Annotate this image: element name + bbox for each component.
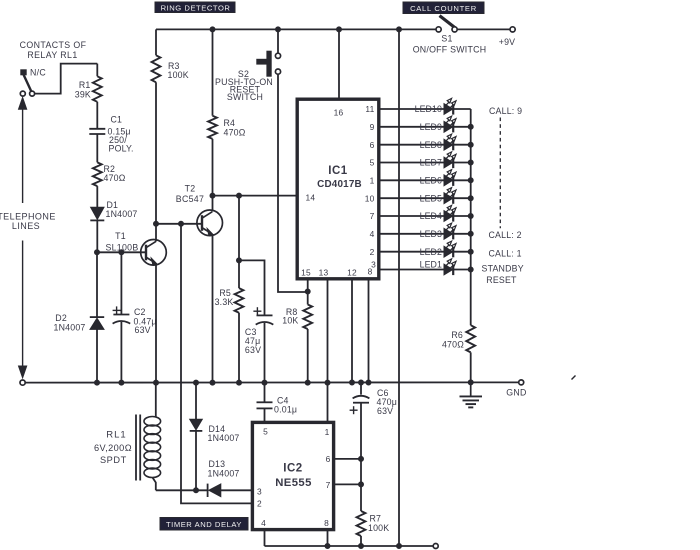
wire T2 collector xyxy=(212,196,214,212)
switch S1 terminals xyxy=(436,27,457,32)
IC2 pin 3 label xyxy=(257,487,262,497)
node ground bus IC1-13 IC2-1 xyxy=(325,380,330,385)
capacitor C3 xyxy=(256,315,274,382)
IC2 pin 8 label xyxy=(324,518,329,528)
wire IC2 pin7 xyxy=(334,483,361,485)
svg-text:RELAY RL1: RELAY RL1 xyxy=(27,50,77,60)
capacitor C6 xyxy=(353,383,370,512)
svg-text:63V: 63V xyxy=(377,406,393,416)
label D2 xyxy=(54,313,86,332)
svg-text:R6: R6 xyxy=(451,330,463,340)
svg-text:3: 3 xyxy=(371,260,376,270)
svg-text:SWITCH: SWITCH xyxy=(227,92,263,102)
svg-text:11: 11 xyxy=(365,104,374,114)
IC1 pin 15 label xyxy=(301,267,311,277)
node LED8 cathode junction xyxy=(468,142,473,147)
wire S1 to +9V terminal xyxy=(457,28,510,30)
svg-text:6V,200Ω: 6V,200Ω xyxy=(94,443,132,453)
wire IC1 pin 3 to LED1 xyxy=(379,269,444,271)
call counter section label xyxy=(403,2,484,14)
wire IC1 pin8 to ground bus xyxy=(368,279,370,383)
node ground bus R5 xyxy=(237,380,242,385)
svg-text:CALL: 9: CALL: 9 xyxy=(489,106,522,116)
label RESET xyxy=(486,275,517,285)
node reset junction xyxy=(305,289,310,294)
svg-text:100K: 100K xyxy=(168,70,189,80)
wire bottom +9V rail xyxy=(265,545,434,547)
svg-text:SPDT: SPDT xyxy=(100,455,127,465)
label D14 xyxy=(208,424,240,443)
label LED10 xyxy=(415,104,442,114)
wire IC1 pin 2 to LED2 xyxy=(379,251,444,253)
node ground bus T2 emitter xyxy=(210,380,215,385)
svg-text:4: 4 xyxy=(261,518,266,528)
wire IC2 pin4 to rail xyxy=(264,530,266,546)
svg-text:SL100B: SL100B xyxy=(105,243,138,253)
wire IC2 pin8 to rail xyxy=(327,530,329,546)
node LED5 cathode junction xyxy=(468,196,473,201)
ground symbol xyxy=(460,382,483,407)
node C2 branch xyxy=(119,250,124,255)
svg-text:6: 6 xyxy=(326,454,331,464)
label LED2 xyxy=(420,247,442,257)
svg-text:2: 2 xyxy=(370,247,375,257)
telephone line arrow up xyxy=(19,97,27,203)
resistor R4 xyxy=(208,29,217,195)
diode D14 xyxy=(190,383,203,491)
wire IC1 pin13 to IC2 pin1 xyxy=(327,279,329,422)
svg-text:LED9: LED9 xyxy=(420,122,442,132)
svg-text:LED7: LED7 xyxy=(420,158,442,168)
svg-text:12: 12 xyxy=(347,267,357,277)
relay RL1 coil xyxy=(144,383,161,491)
svg-text:2: 2 xyxy=(257,498,262,508)
terminal contact upper xyxy=(20,91,25,96)
svg-text:LED4: LED4 xyxy=(420,211,442,221)
svg-text:LED6: LED6 xyxy=(420,175,442,185)
label CALL 1 xyxy=(489,249,522,259)
capacitor C1 xyxy=(89,129,105,163)
wire top rail to S2 xyxy=(277,29,279,53)
label CALL 2 xyxy=(489,230,522,240)
node T2 collector junction xyxy=(210,193,215,198)
capacitor C2 xyxy=(113,252,131,382)
node D1 T1-base junction xyxy=(95,250,100,255)
svg-text:C1: C1 xyxy=(111,115,123,125)
label R2 xyxy=(104,164,126,183)
LED2 xyxy=(444,241,471,257)
svg-text:CONTACTS OF: CONTACTS OF xyxy=(20,40,87,50)
diode D1 xyxy=(90,207,104,252)
svg-text:IC2: IC2 xyxy=(283,463,302,475)
wire IC1 pin 5 to LED7 xyxy=(379,162,444,164)
label R8 xyxy=(282,307,298,326)
svg-text:IC1: IC1 xyxy=(328,165,348,177)
node ground bus T1 emitter / RL1 xyxy=(154,380,159,385)
node LED7 cathode junction xyxy=(468,160,473,165)
IC2 pin 6 label xyxy=(326,454,331,464)
wire top supply rail xyxy=(156,28,436,30)
label LED3 xyxy=(420,229,442,239)
node pin6 junction xyxy=(359,456,364,461)
label LED9 xyxy=(420,122,442,132)
label R7 xyxy=(368,514,389,534)
wire IC1 pin 1 to LED6 xyxy=(379,179,444,181)
terminal +9V xyxy=(510,27,515,32)
label D13 xyxy=(208,459,240,478)
LED7 xyxy=(444,152,471,168)
IC2 pin 1 label xyxy=(325,427,330,437)
ring detector section label xyxy=(155,2,235,13)
svg-text:10K: 10K xyxy=(282,316,298,326)
svg-text:LED8: LED8 xyxy=(420,140,442,150)
node D13 D14 junction xyxy=(194,488,199,493)
svg-text:RING DETECTOR: RING DETECTOR xyxy=(161,3,231,12)
svg-text:LED5: LED5 xyxy=(420,193,442,203)
C3 plus sign xyxy=(253,307,261,315)
svg-text:1N4007: 1N4007 xyxy=(208,433,240,443)
wire S2 to reset net xyxy=(278,74,308,292)
contacts of relay RL1 label xyxy=(20,40,87,60)
op-amp IC1 CD4017B box xyxy=(297,99,379,279)
label C2 xyxy=(134,307,157,335)
C2 plus sign xyxy=(113,306,121,314)
resistor R2 xyxy=(93,162,102,207)
svg-text:4: 4 xyxy=(370,229,375,239)
node IC1 pin16 branch on top rail xyxy=(337,27,342,32)
LED3 xyxy=(444,223,471,239)
svg-text:16: 16 xyxy=(334,108,344,118)
svg-text:LED2: LED2 xyxy=(420,247,442,257)
node ground bus C3 C4 xyxy=(262,380,267,385)
node C3 branch xyxy=(237,258,242,263)
label C6 xyxy=(377,388,398,416)
IC1 pin 1 label xyxy=(370,175,375,185)
svg-text:LED10: LED10 xyxy=(415,104,442,114)
svg-text:100K: 100K xyxy=(368,523,389,533)
svg-text:T1: T1 xyxy=(115,231,126,241)
label T1 xyxy=(105,231,138,253)
dashed call count line xyxy=(499,118,501,229)
node rail R7 xyxy=(359,544,364,549)
node ground bus IC1-12 xyxy=(350,380,355,385)
node S2 branch on top rail xyxy=(276,27,281,32)
svg-text:TELEPHONE: TELEPHONE xyxy=(0,211,56,221)
telephone lines label xyxy=(0,211,56,231)
label LED6 xyxy=(420,175,442,185)
label LED1 xyxy=(420,260,442,270)
svg-text:0.01μ: 0.01μ xyxy=(274,405,297,415)
svg-text:LED3: LED3 xyxy=(420,229,442,239)
resistor R5 xyxy=(235,196,244,383)
label LED8 xyxy=(420,140,442,150)
label R3 xyxy=(168,61,189,80)
svg-text:5: 5 xyxy=(263,426,268,436)
wire RL1 coil to D13 xyxy=(156,489,207,491)
svg-text:GND: GND xyxy=(506,387,526,397)
label R1 xyxy=(75,80,91,100)
resistor R8 xyxy=(303,279,312,383)
label LED7 xyxy=(420,158,442,168)
label C4 xyxy=(274,395,297,414)
label CALL 9 xyxy=(489,106,522,116)
svg-text:1: 1 xyxy=(325,427,330,437)
svg-text:14: 14 xyxy=(306,192,316,202)
label R4 xyxy=(224,118,246,137)
label S1 xyxy=(441,34,452,44)
wire T1 base xyxy=(97,251,146,253)
svg-text:470Ω: 470Ω xyxy=(224,127,246,137)
node LED3 cathode junction xyxy=(468,231,473,236)
wire IC1 pin 9 to LED9 xyxy=(379,126,444,128)
stray tick mark xyxy=(572,376,576,380)
svg-text:470Ω: 470Ω xyxy=(442,340,464,350)
svg-text:3.3K: 3.3K xyxy=(215,297,234,307)
IC1 pin 5 label xyxy=(370,158,375,168)
C6 plus sign xyxy=(350,406,358,414)
node LED4 cathode junction xyxy=(468,214,473,219)
node rail +9V bus xyxy=(397,544,402,549)
label STANDBY xyxy=(482,264,524,274)
node LED9 cathode junction xyxy=(468,124,473,129)
node ground bus D14 xyxy=(194,380,199,385)
svg-text:5: 5 xyxy=(370,158,375,168)
resistor R6 xyxy=(466,325,475,382)
node rail IC2 pin8 xyxy=(325,544,330,549)
node trigger branch xyxy=(179,221,184,226)
svg-text:1: 1 xyxy=(370,175,375,185)
switch S1 blade xyxy=(440,16,457,29)
svg-text:CALL COUNTER: CALL COUNTER xyxy=(410,4,477,13)
IC1 pin 11 label xyxy=(365,104,374,114)
wire +9V bus xyxy=(398,29,400,546)
LED9 xyxy=(444,116,471,132)
IC1 pin 6 label xyxy=(370,140,375,150)
svg-text:RESET: RESET xyxy=(486,275,517,285)
svg-text:470Ω: 470Ω xyxy=(104,173,126,183)
wire IC1 pin 4 to LED3 xyxy=(379,233,444,235)
wire trigger to IC2 pin2 xyxy=(181,224,252,504)
relay contact anchor xyxy=(21,70,26,75)
label LED5 xyxy=(420,193,442,203)
LED1 xyxy=(444,259,471,275)
resistor R3 xyxy=(152,29,161,223)
node R4 branch on top rail xyxy=(210,27,215,32)
timer IC2 NE555 box xyxy=(252,422,333,529)
IC2 pin 5 label xyxy=(263,426,268,436)
label R6 xyxy=(442,330,464,350)
wire IC1 pin 11 to LED10 xyxy=(379,108,444,110)
label S2 xyxy=(215,69,273,102)
node ground bus IC1-8 xyxy=(366,380,371,385)
capacitor C4 xyxy=(257,383,273,409)
LED4 xyxy=(444,205,471,221)
svg-text:RL1: RL1 xyxy=(106,430,126,441)
IC1 pin 8 bottom label xyxy=(368,266,373,276)
svg-text:1N4007: 1N4007 xyxy=(54,323,86,333)
svg-text:CALL: 1: CALL: 1 xyxy=(489,249,522,259)
svg-text:63V: 63V xyxy=(135,325,151,335)
diode D13 xyxy=(208,484,253,497)
label D1 xyxy=(106,200,138,219)
node ground bus D2 xyxy=(95,380,100,385)
svg-text:7: 7 xyxy=(326,480,331,490)
node LED2 cathode junction xyxy=(468,249,473,254)
svg-text:R7: R7 xyxy=(370,514,382,524)
IC1 pin 4 label xyxy=(370,229,375,239)
wire IC2 pin6 xyxy=(334,458,361,460)
svg-text:CALL: 2: CALL: 2 xyxy=(489,230,522,240)
svg-text:7: 7 xyxy=(370,211,375,221)
wire LED cathode bus xyxy=(470,109,472,325)
wire IC1 pin12 to ground bus xyxy=(351,279,353,383)
svg-text:1N4007: 1N4007 xyxy=(208,468,240,478)
label +9V xyxy=(499,37,516,47)
svg-text:T2: T2 xyxy=(185,184,196,194)
LED8 xyxy=(444,134,471,150)
telephone line arrow down xyxy=(19,241,27,378)
svg-text:1N4007: 1N4007 xyxy=(106,209,138,219)
svg-text:LINES: LINES xyxy=(12,221,40,231)
label R5 xyxy=(215,288,234,307)
wire main ground bus xyxy=(25,381,471,383)
IC1 pin 10 label xyxy=(365,193,375,203)
wire IC1 pin14 net xyxy=(213,195,298,197)
svg-text:ON/OFF SWITCH: ON/OFF SWITCH xyxy=(413,44,487,54)
timer and delay section label xyxy=(160,518,248,531)
wire IC1 pin 7 to LED4 xyxy=(379,215,444,217)
diode D2 xyxy=(90,252,104,382)
IC1 pin 12 label xyxy=(347,267,357,277)
svg-text:10: 10 xyxy=(365,193,375,203)
IC2 pin 4 label xyxy=(261,518,266,528)
svg-text:R1: R1 xyxy=(79,80,91,90)
wire C3 branch xyxy=(239,260,265,315)
terminal GND xyxy=(519,380,524,385)
svg-text:13: 13 xyxy=(319,267,329,277)
label GND xyxy=(506,387,526,397)
IC1 pin 3 label xyxy=(371,260,376,270)
wire IC2 pin5 to C4 xyxy=(264,408,266,422)
IC2 pin 2 label xyxy=(257,498,262,508)
svg-text:S1: S1 xyxy=(441,34,452,44)
wire IC1 pin 6 to LED8 xyxy=(379,144,444,146)
terminal telephone lower xyxy=(20,380,25,385)
IC1 pin 9 label xyxy=(370,122,375,132)
wire T2 base xyxy=(156,223,202,225)
node LED1 cathode junction xyxy=(468,267,473,272)
terminal contact blade xyxy=(30,91,35,96)
svg-text:+9V: +9V xyxy=(499,37,516,47)
label C1 xyxy=(108,115,134,154)
svg-text:63V: 63V xyxy=(245,345,261,355)
label C3 xyxy=(245,327,261,355)
node T1 collector junction xyxy=(154,221,159,226)
svg-text:8: 8 xyxy=(324,518,329,528)
node +9V bus branch on top rail xyxy=(397,27,402,32)
LED5 xyxy=(444,188,471,204)
IC1 pin 7 label xyxy=(370,211,375,221)
svg-text:NE555: NE555 xyxy=(275,477,312,489)
transistor T2 BC547 xyxy=(197,210,223,236)
IC1 pin 13 label xyxy=(319,267,329,277)
terminal rail end xyxy=(433,544,438,549)
svg-text:3: 3 xyxy=(257,487,262,497)
svg-text:STANDBY: STANDBY xyxy=(482,264,524,274)
resistor R1 xyxy=(93,64,102,129)
IC2 pin 7 label xyxy=(326,480,331,490)
relay RL1 core xyxy=(136,415,140,481)
svg-text:LED1: LED1 xyxy=(420,260,442,270)
svg-text:N/C: N/C xyxy=(30,68,46,78)
wire IC1 pin16 to rail xyxy=(338,29,340,97)
LED10 xyxy=(444,98,471,114)
label ON/OFF SWITCH xyxy=(413,44,487,54)
resistor R7 xyxy=(357,511,366,546)
label T2 xyxy=(176,184,204,205)
IC1 pin 16 label xyxy=(334,108,344,118)
node ground bus R8 xyxy=(305,380,310,385)
node pin7 junction xyxy=(359,482,364,487)
svg-text:TIMER AND DELAY: TIMER AND DELAY xyxy=(166,520,242,529)
wire T1 emitter xyxy=(155,264,157,383)
svg-text:POLY.: POLY. xyxy=(109,143,134,153)
svg-text:9: 9 xyxy=(370,122,375,132)
LED6 xyxy=(444,170,471,186)
wire ground bus to GND terminal xyxy=(471,381,519,383)
wire IC1 pin 10 to LED5 xyxy=(379,197,444,199)
svg-text:BC547: BC547 xyxy=(176,194,204,204)
wire contact to R1 xyxy=(35,64,98,94)
switch S2 push-to-on xyxy=(257,51,281,76)
svg-text:6: 6 xyxy=(370,140,375,150)
node R6 ground junction xyxy=(468,380,473,385)
label LED4 xyxy=(420,211,442,221)
wire T1 collector xyxy=(155,224,157,241)
IC1 pin 2 label xyxy=(370,247,375,257)
transistor T1 SL100B xyxy=(141,240,167,266)
svg-text:15: 15 xyxy=(301,267,311,277)
relay contact blade xyxy=(24,75,32,92)
node ground bus C2 xyxy=(119,380,124,385)
label N/C xyxy=(30,68,46,78)
wire T2 emitter xyxy=(212,234,214,383)
node LED6 cathode junction xyxy=(468,178,473,183)
svg-text:CD4017B: CD4017B xyxy=(317,179,362,190)
node R5 branch xyxy=(237,193,242,198)
IC1 pin 14 label xyxy=(306,192,316,202)
svg-text:39K: 39K xyxy=(75,90,91,100)
label RL1 xyxy=(94,430,132,466)
node ground bus C6 xyxy=(359,380,364,385)
